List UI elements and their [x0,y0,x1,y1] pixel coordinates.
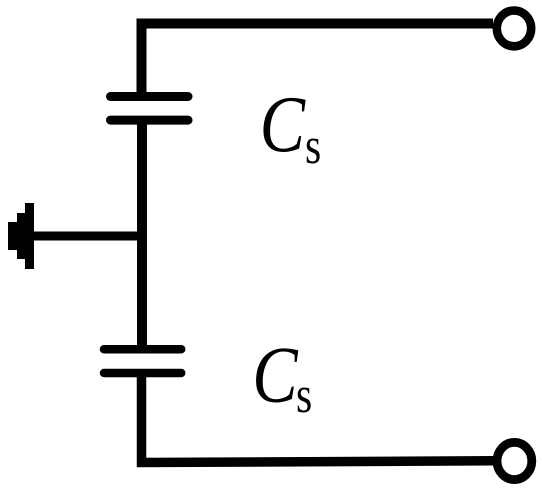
svg-text:s: s [296,367,312,424]
svg-text:s: s [305,118,321,175]
svg-text:C: C [252,332,299,420]
svg-text:C: C [260,82,307,170]
